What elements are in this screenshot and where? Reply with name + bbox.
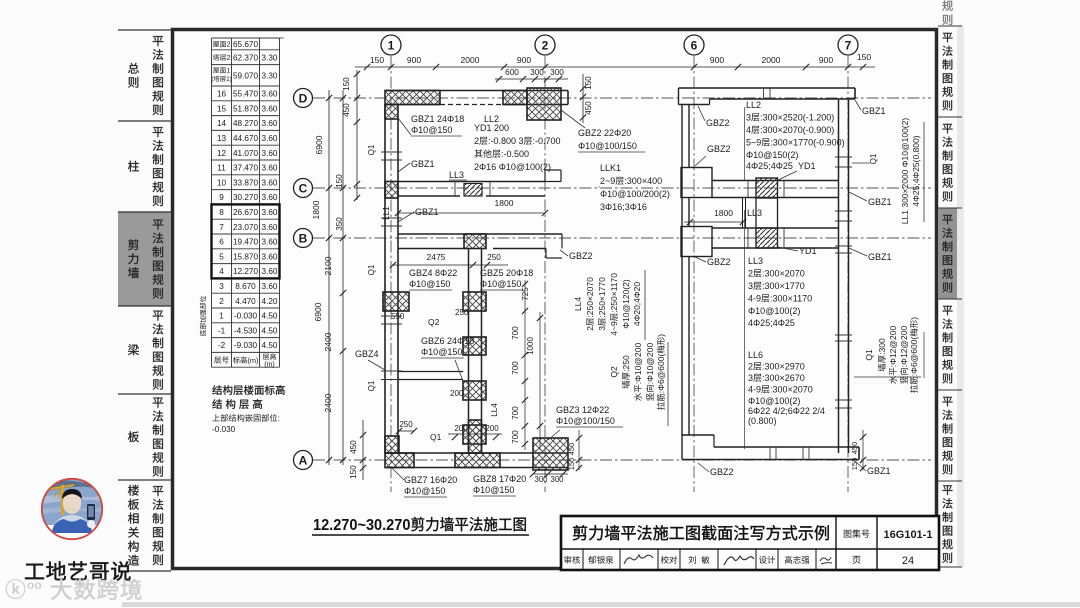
svg-text:-9.030: -9.030 xyxy=(234,341,258,350)
svg-text::-0.700: :-0.700 xyxy=(533,136,561,146)
svg-text:150: 150 xyxy=(370,55,384,65)
svg-text:3.60: 3.60 xyxy=(262,238,278,247)
watermark bottom left xyxy=(6,579,26,599)
svg-text:3.60: 3.60 xyxy=(262,178,278,187)
dims right of col at 2/A xyxy=(578,430,580,470)
svg-text:3: 3 xyxy=(597,326,607,331)
svg-text:2475: 2475 xyxy=(427,252,446,262)
svg-text:1: 1 xyxy=(226,68,230,75)
svg-text:550: 550 xyxy=(391,312,405,321)
svg-text:Q1: Q1 xyxy=(367,380,376,391)
svg-text:GBZ2 22Φ20: GBZ2 22Φ20 xyxy=(578,128,631,138)
svg-text:450: 450 xyxy=(342,103,351,117)
bottom gray strip xyxy=(122,602,1080,607)
svg-text:Φ10@100(2): Φ10@100(2) xyxy=(748,396,800,406)
svg-text:LL3: LL3 xyxy=(747,208,762,218)
dim 1800 right half xyxy=(684,221,743,223)
svg-text:Q1: Q1 xyxy=(864,349,874,361)
svg-text:(0.800): (0.800) xyxy=(748,416,777,426)
svg-text:16: 16 xyxy=(217,90,227,99)
svg-text:Φ10@150: Φ10@150 xyxy=(473,485,514,495)
label GBZ7 xyxy=(392,468,404,480)
svg-text:Φ10@100/150: Φ10@100/150 xyxy=(556,416,615,426)
svg-text:): ) xyxy=(909,317,919,320)
svg-text:LL2: LL2 xyxy=(746,100,761,110)
svg-text::300×2070: :300×2070 xyxy=(770,385,813,395)
svg-text:2Φ16 Φ10@100(2): 2Φ16 Φ10@100(2) xyxy=(474,162,551,172)
svg-text:15: 15 xyxy=(217,104,227,113)
svg-text:Q2: Q2 xyxy=(428,317,440,327)
svg-text:LL6: LL6 xyxy=(748,350,763,360)
svg-text:1800: 1800 xyxy=(714,208,733,218)
svg-text:33.870: 33.870 xyxy=(233,178,258,187)
svg-text:GBZ1: GBZ1 xyxy=(867,466,891,476)
svg-text:2: 2 xyxy=(227,42,231,49)
svg-text:7: 7 xyxy=(219,223,224,232)
wall D top band left half xyxy=(385,90,568,92)
svg-text:300: 300 xyxy=(534,475,548,484)
svg-text:150: 150 xyxy=(335,174,344,188)
svg-text:41.070: 41.070 xyxy=(233,149,258,158)
svg-text:-2: -2 xyxy=(218,341,226,350)
svg-text::300×400: :300×400 xyxy=(624,176,662,186)
svg-text:8: 8 xyxy=(219,208,224,217)
svg-text:-0.030: -0.030 xyxy=(212,425,236,434)
svg-text:A: A xyxy=(299,454,308,468)
svg-text:4: 4 xyxy=(746,125,751,135)
svg-text:Φ10@150: Φ10@150 xyxy=(409,279,450,289)
svg-text:3.60: 3.60 xyxy=(262,149,278,158)
svg-text:4-9: 4-9 xyxy=(748,294,761,304)
svg-text:GBZ2: GBZ2 xyxy=(706,118,730,128)
svg-text:150: 150 xyxy=(567,458,576,471)
svg-text:GBZ4 8Φ22: GBZ4 8Φ22 xyxy=(409,268,457,278)
label GBZ2 22d20 xyxy=(561,110,585,128)
svg-text:2: 2 xyxy=(585,326,595,331)
svg-text::250×1170: :250×1170 xyxy=(609,273,619,313)
svg-text:LL3: LL3 xyxy=(449,170,464,180)
svg-text:): ) xyxy=(656,334,666,337)
svg-text:(m): (m) xyxy=(247,356,258,365)
interior wall Q2 vertical xyxy=(468,249,470,454)
column GBZ2 at 2/D xyxy=(503,91,527,105)
left dim chain inner 150/450 xyxy=(356,70,358,200)
svg-text:150: 150 xyxy=(857,52,871,62)
YD1 shaft lower hatch xyxy=(756,228,778,248)
svg-text:450: 450 xyxy=(584,101,593,115)
wall A band left half xyxy=(385,452,568,454)
svg-text::300×2970: :300×2970 xyxy=(762,362,805,372)
dim 2475 under B band xyxy=(392,264,508,266)
svg-text::250×1770: :250×1770 xyxy=(597,277,607,318)
signature 2 xyxy=(724,556,754,565)
C band right half xyxy=(712,180,839,182)
svg-text:150: 150 xyxy=(349,465,358,479)
svg-text:7: 7 xyxy=(845,39,852,53)
secondary chain for 1000 dim xyxy=(539,312,541,450)
svg-text:GBZ7 16Φ20: GBZ7 16Φ20 xyxy=(404,475,457,485)
svg-text:3.60: 3.60 xyxy=(262,119,278,128)
column GBZ7 at 1/A xyxy=(385,436,399,453)
small 150/450 dims right of GBZ2 at D xyxy=(582,74,584,123)
svg-text:3: 3 xyxy=(219,282,224,291)
svg-text:Φ10@150: Φ10@150 xyxy=(404,486,445,496)
svg-text:700: 700 xyxy=(511,361,520,375)
svg-text:Q1: Q1 xyxy=(869,153,878,164)
B band right half xyxy=(712,227,839,229)
svg-text:3Φ16;3Φ16: 3Φ16;3Φ16 xyxy=(600,202,647,212)
left edge wall right half xyxy=(681,105,683,436)
svg-text:3.60: 3.60 xyxy=(262,90,278,99)
svg-text:300: 300 xyxy=(530,68,544,77)
svg-text:300: 300 xyxy=(550,475,564,484)
svg-text:725: 725 xyxy=(521,287,530,301)
svg-text:600: 600 xyxy=(505,68,519,77)
svg-text:24: 24 xyxy=(902,555,914,567)
dims around A band left xyxy=(399,430,414,432)
svg-text:GBZ2: GBZ2 xyxy=(707,257,731,267)
svg-text:19.470: 19.470 xyxy=(233,238,258,247)
svg-text::Φ12@200: :Φ12@200 xyxy=(899,326,909,368)
svg-text:2400: 2400 xyxy=(323,332,333,351)
svg-text::300×1770: :300×1770 xyxy=(762,281,805,291)
wall C band left half xyxy=(398,181,545,183)
svg-text:12.270~30.270: 12.270~30.270 xyxy=(313,517,410,535)
svg-text::300×2070: :300×2070 xyxy=(762,269,805,279)
svg-text:13: 13 xyxy=(217,134,227,143)
svg-text:1: 1 xyxy=(388,39,395,53)
wall on axis 1 vertical xyxy=(384,105,386,454)
svg-text::300×2520(-1.200): :300×2520(-1.200) xyxy=(760,113,834,123)
svg-text:65.670: 65.670 xyxy=(233,40,258,49)
svg-text:YD1 200: YD1 200 xyxy=(474,123,509,133)
svg-text::: : xyxy=(278,414,280,423)
svg-text:4Φ20;4Φ20: 4Φ20;4Φ20 xyxy=(632,282,642,327)
svg-text:4Φ25;4Φ25: 4Φ25;4Φ25 xyxy=(748,318,795,328)
svg-text:oo: oo xyxy=(27,578,42,592)
svg-text:GBZ1: GBZ1 xyxy=(862,106,886,116)
svg-text:15.870: 15.870 xyxy=(233,252,258,261)
svg-text:8.670: 8.670 xyxy=(235,282,256,291)
svg-text:Φ10@150(2): Φ10@150(2) xyxy=(746,150,798,160)
svg-text:300: 300 xyxy=(550,68,564,77)
svg-text:GBZ4: GBZ4 xyxy=(355,349,379,359)
column GBZ8 at Q2/A xyxy=(469,420,482,453)
svg-text:3.60: 3.60 xyxy=(262,252,278,261)
svg-text:LL3: LL3 xyxy=(748,256,763,266)
svg-text:4-9: 4-9 xyxy=(748,385,761,395)
small dims near A/7 xyxy=(862,430,864,470)
C row left block xyxy=(681,168,712,198)
svg-text:6Φ22 4/2;6Φ22 2/4: 6Φ22 4/2;6Φ22 2/4 xyxy=(748,406,825,416)
svg-text:GBZ6 24Φ18: GBZ6 24Φ18 xyxy=(421,336,474,346)
svg-text:3.30: 3.30 xyxy=(262,53,278,62)
svg-text::300: :300 xyxy=(877,338,887,355)
secondary dims near axis 2 xyxy=(495,78,568,80)
svg-text:Q1: Q1 xyxy=(367,144,376,155)
svg-text:Q2: Q2 xyxy=(609,366,619,378)
svg-text:4.50: 4.50 xyxy=(262,341,278,350)
page frame xyxy=(173,30,937,569)
column hatch at B/Q2 junction xyxy=(464,234,486,249)
left sidebar xyxy=(118,212,171,306)
wall D top band right half xyxy=(679,87,856,89)
svg-text:250: 250 xyxy=(487,253,501,262)
svg-text:450: 450 xyxy=(567,443,576,456)
svg-text:450: 450 xyxy=(850,442,859,455)
avatar circle logo xyxy=(40,477,104,541)
elevation table xyxy=(212,37,280,39)
connecting beam LL3 hatch at C xyxy=(464,184,482,197)
svg-text:37.470: 37.470 xyxy=(233,164,258,173)
svg-text:5~9: 5~9 xyxy=(746,138,761,148)
svg-text::Φ6@600(: :Φ6@600( xyxy=(909,337,919,377)
svg-text:12.270: 12.270 xyxy=(233,267,258,276)
top dimension chain left xyxy=(355,66,875,68)
svg-text:150: 150 xyxy=(850,458,859,471)
svg-text:11: 11 xyxy=(217,164,226,173)
svg-text:-1: -1 xyxy=(218,326,226,335)
svg-text:3.30: 3.30 xyxy=(262,72,278,81)
svg-text:51.870: 51.870 xyxy=(233,104,258,113)
svg-text:450: 450 xyxy=(349,440,358,454)
svg-text:14: 14 xyxy=(217,119,227,128)
left dim chain mid xyxy=(342,90,344,465)
wall B band left half xyxy=(398,233,562,235)
svg-text:(m): (m) xyxy=(264,361,275,368)
svg-text:200: 200 xyxy=(450,389,464,398)
top dimension chain right xyxy=(691,64,697,70)
svg-text:B: B xyxy=(299,232,308,246)
svg-text:900: 900 xyxy=(517,55,531,65)
svg-text:-0.030: -0.030 xyxy=(234,312,258,321)
axis circles left xyxy=(294,89,313,108)
vertical dim chain right of Q2 wall xyxy=(524,280,526,450)
svg-text:Φ10@150: Φ10@150 xyxy=(480,279,521,289)
svg-text:3: 3 xyxy=(748,373,753,383)
shaft walls xyxy=(755,198,757,228)
signature 3 xyxy=(820,557,832,564)
svg-text:LL4: LL4 xyxy=(490,403,499,417)
svg-text::300×2070(-0.900): :300×2070(-0.900) xyxy=(760,125,834,135)
svg-text:1: 1 xyxy=(219,312,224,321)
svg-text:GBZ2: GBZ2 xyxy=(707,144,731,154)
svg-text:GBZ1: GBZ1 xyxy=(411,159,435,169)
svg-text:GBZ5 20Φ18: GBZ5 20Φ18 xyxy=(480,268,533,278)
svg-text:Φ10@150: Φ10@150 xyxy=(421,347,462,357)
svg-text:LL1: LL1 xyxy=(382,206,391,220)
svg-text:Φ10@100(2): Φ10@100(2) xyxy=(748,306,800,316)
svg-text::300×2670: :300×2670 xyxy=(762,373,805,383)
svg-text:12: 12 xyxy=(217,149,227,158)
svg-text::Φ10@200: :Φ10@200 xyxy=(645,343,655,385)
svg-text:2: 2 xyxy=(219,297,224,306)
svg-text:350: 350 xyxy=(335,217,344,231)
bottom band right half xyxy=(714,446,859,448)
table notes xyxy=(212,385,285,395)
svg-text:D: D xyxy=(299,92,308,106)
svg-text:200: 200 xyxy=(485,424,499,433)
title block xyxy=(561,516,939,570)
svg-text:250: 250 xyxy=(399,420,413,429)
svg-text:16G101-1: 16G101-1 xyxy=(884,529,933,541)
svg-text:200: 200 xyxy=(454,424,468,433)
svg-text:4.50: 4.50 xyxy=(262,312,278,321)
svg-text::300×1770(-0.900): :300×1770(-0.900) xyxy=(770,138,844,148)
YD1 shaft upper hatch xyxy=(756,178,778,198)
svg-text:5: 5 xyxy=(219,252,224,261)
svg-text:4Φ25;4Φ25(0.800): 4Φ25;4Φ25(0.800) xyxy=(911,135,921,206)
svg-text::250×2070: :250×2070 xyxy=(585,277,595,318)
svg-text:6: 6 xyxy=(219,238,224,247)
svg-text:62.370: 62.370 xyxy=(233,53,258,62)
svg-text:1): 1) xyxy=(226,76,232,83)
axis grid lines xyxy=(390,56,392,492)
svg-text:2400: 2400 xyxy=(323,393,333,412)
svg-text:900: 900 xyxy=(407,55,421,65)
svg-text:6: 6 xyxy=(691,39,698,53)
svg-text:Q1: Q1 xyxy=(367,264,376,275)
svg-text:2000: 2000 xyxy=(762,55,781,65)
svg-text:-4.530: -4.530 xyxy=(234,326,258,335)
column at 2/A xyxy=(533,438,568,470)
svg-text:1000: 1000 xyxy=(526,337,535,355)
svg-text:2: 2 xyxy=(474,136,479,146)
blogger name xyxy=(25,561,130,580)
beam between axis1 and Q2 xyxy=(398,371,463,373)
svg-text:GBZ2: GBZ2 xyxy=(710,467,734,477)
svg-text:GBZ1 24Φ18: GBZ1 24Φ18 xyxy=(411,114,464,124)
svg-text:250: 250 xyxy=(455,308,469,317)
svg-text:3: 3 xyxy=(748,281,753,291)
svg-text::Φ6@600(: :Φ6@600( xyxy=(656,354,666,394)
drawing caption xyxy=(313,517,526,535)
columns GBZ5/GBZ6 hatches on Q2 wall xyxy=(463,292,486,311)
svg-text:900: 900 xyxy=(710,55,724,65)
svg-text:3.60: 3.60 xyxy=(262,134,278,143)
svg-text:4Φ25;4Φ25: 4Φ25;4Φ25 xyxy=(746,161,793,171)
svg-text:GBZ3 12Φ22: GBZ3 12Φ22 xyxy=(556,405,609,415)
svg-text:10: 10 xyxy=(217,178,227,187)
svg-text:26.670: 26.670 xyxy=(233,208,258,217)
svg-text:2: 2 xyxy=(748,269,753,279)
svg-text:3.60: 3.60 xyxy=(262,164,278,173)
svg-text:23.070: 23.070 xyxy=(233,223,258,232)
svg-text:3: 3 xyxy=(746,113,751,123)
svg-text:3.60: 3.60 xyxy=(262,223,278,232)
svg-text:3.60: 3.60 xyxy=(262,282,278,291)
jamb lines between C and B bands xyxy=(742,198,744,229)
svg-text:2: 2 xyxy=(227,55,231,62)
svg-text:LL1 300×2000 Φ10@100(2): LL1 300×2000 Φ10@100(2) xyxy=(900,118,910,225)
svg-text:700: 700 xyxy=(511,326,520,340)
right sidebar xyxy=(938,208,962,299)
column GBZ4 on axis1 xyxy=(383,292,409,311)
svg-text::Φ10@200: :Φ10@200 xyxy=(633,343,643,385)
svg-text:YD1: YD1 xyxy=(799,246,817,256)
svg-text:9: 9 xyxy=(219,193,224,202)
svg-text:700: 700 xyxy=(511,430,520,444)
svg-text:150: 150 xyxy=(342,77,351,91)
label GBZ1 24d18 xyxy=(398,118,411,135)
axis circles top xyxy=(381,35,401,55)
svg-text:LLK1: LLK1 xyxy=(600,163,621,173)
svg-text:900: 900 xyxy=(819,55,833,65)
svg-text:2: 2 xyxy=(748,362,753,372)
underline of rotated LL4 block xyxy=(644,270,646,340)
svg-text:2: 2 xyxy=(542,39,549,53)
svg-text:GBZ1: GBZ1 xyxy=(868,252,892,262)
svg-text:55.470: 55.470 xyxy=(233,90,258,99)
svg-text:4~9: 4~9 xyxy=(609,321,619,336)
svg-text:700: 700 xyxy=(511,406,520,420)
svg-text:3.60: 3.60 xyxy=(262,267,278,276)
svg-text:GBZ8 17Φ20: GBZ8 17Φ20 xyxy=(473,474,526,484)
svg-text:44.670: 44.670 xyxy=(233,134,258,143)
svg-text:48.270: 48.270 xyxy=(233,119,258,128)
svg-text:2~9: 2~9 xyxy=(600,176,615,186)
svg-text:YD1: YD1 xyxy=(798,161,816,171)
svg-text:6900: 6900 xyxy=(313,302,323,321)
svg-text:Φ10@100/200(2): Φ10@100/200(2) xyxy=(600,189,670,199)
signature 1 xyxy=(624,555,653,564)
svg-text:150: 150 xyxy=(584,76,593,90)
underline of rotated Q2 block xyxy=(667,342,669,426)
svg-text:Φ10@100/150: Φ10@100/150 xyxy=(578,141,637,151)
svg-text:Q1: Q1 xyxy=(430,432,442,442)
svg-text:C: C xyxy=(299,182,308,196)
top band left step block xyxy=(678,88,680,105)
svg-text:GBZ1: GBZ1 xyxy=(415,207,439,217)
beam mark on top band xyxy=(763,88,765,99)
wall axis7 vertical xyxy=(838,99,840,453)
svg-text::Φ12@200: :Φ12@200 xyxy=(888,326,898,368)
svg-text:3.60: 3.60 xyxy=(262,208,278,217)
svg-text:1800: 1800 xyxy=(495,198,514,208)
svg-text:GBZ1: GBZ1 xyxy=(868,197,892,207)
column on axis1 at C xyxy=(385,182,398,199)
svg-text:Φ10@120(2): Φ10@120(2) xyxy=(621,279,631,329)
svg-text:3.60: 3.60 xyxy=(262,193,278,202)
column GBZ1 at 1/D xyxy=(385,91,440,105)
svg-text:4.50: 4.50 xyxy=(262,326,278,335)
svg-text:Φ10@150: Φ10@150 xyxy=(411,125,452,135)
svg-text:GBZ2: GBZ2 xyxy=(569,251,593,261)
B row left block xyxy=(681,227,712,257)
svg-text::-0.500: :-0.500 xyxy=(501,149,529,159)
svg-text:1800: 1800 xyxy=(311,200,321,219)
svg-text:4.20: 4.20 xyxy=(262,297,278,306)
svg-text::250: :250 xyxy=(621,355,631,372)
svg-text:LL4: LL4 xyxy=(573,297,583,311)
svg-text::-0.800 3: :-0.800 3 xyxy=(488,136,524,146)
svg-text:4.470: 4.470 xyxy=(235,297,256,306)
dim 1800 under C band xyxy=(398,212,545,214)
left dim chain outer 6900 xyxy=(328,90,330,465)
svg-text:59.070: 59.070 xyxy=(233,72,258,81)
svg-text:3.60: 3.60 xyxy=(262,104,278,113)
svg-text:6900: 6900 xyxy=(314,135,324,154)
svg-text::300×1170: :300×1170 xyxy=(770,294,812,304)
svg-text:4: 4 xyxy=(219,267,224,276)
svg-text:2000: 2000 xyxy=(461,55,480,65)
svg-text:30.270: 30.270 xyxy=(233,193,258,202)
svg-text:2100: 2100 xyxy=(323,256,333,275)
